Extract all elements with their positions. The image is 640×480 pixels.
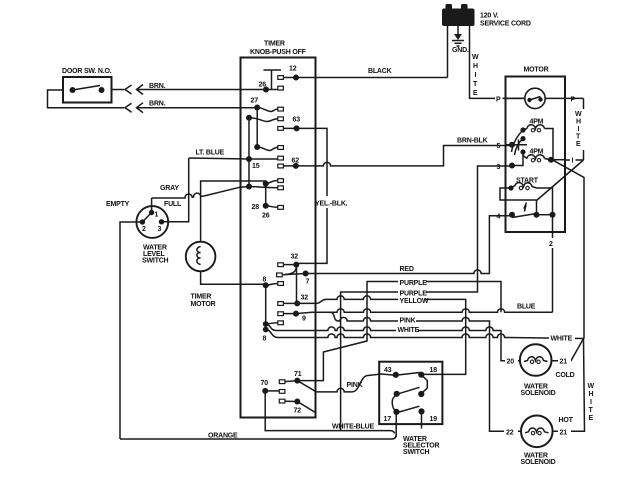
wire 63 to YEL.-BLK. vertical <box>283 128 327 263</box>
svg-text:H: H <box>589 391 594 398</box>
timer box TIMER KNOB-PUSH OFF <box>241 41 316 418</box>
motor main winding 4PM lower <box>523 149 551 162</box>
selector contact 17 dot <box>384 409 400 423</box>
wire terminal 5 stub <box>506 144 513 146</box>
timer arc terminal7-to-32bus <box>285 266 296 275</box>
selector blade 43-18 <box>396 373 420 376</box>
timer terminal 70 <box>279 390 285 394</box>
timer terminal (row 109) <box>278 107 284 111</box>
timer motor circle <box>186 242 216 308</box>
timer wire 70 to terminal <box>265 390 279 392</box>
timer terminal (row 180.5) <box>278 179 284 183</box>
svg-text:BLUE: BLUE <box>517 304 536 311</box>
wire door switch left loop down <box>48 90 125 108</box>
svg-text:I: I <box>475 72 477 79</box>
wire white diagonal to start switch <box>537 160 584 201</box>
timer bus C3 <box>265 184 267 206</box>
svg-text:RED: RED <box>400 266 414 273</box>
svg-text:17: 17 <box>384 416 392 423</box>
wire ORANGE <box>120 433 396 440</box>
svg-text:BRN-BLK: BRN-BLK <box>457 138 488 145</box>
timer blade row147 <box>257 147 278 151</box>
wire 3 to lower winding <box>512 152 523 166</box>
door switch DOOR SW. N.O. <box>62 68 112 103</box>
svg-text:2: 2 <box>142 226 146 233</box>
timer bus C1 <box>248 118 250 187</box>
hot solenoid left lead 22 <box>504 426 518 437</box>
svg-text:PINK: PINK <box>400 318 416 325</box>
wire WHITE-BLUE: timer 70 to selector 17 <box>265 391 394 434</box>
water level switch pin 3 dot <box>158 219 165 233</box>
svg-text:63: 63 <box>293 117 301 124</box>
wire PURPLE lower: white-blue riser to motor 3 <box>341 166 512 431</box>
timer terminal 8b <box>278 321 284 325</box>
motor terminal 3 dot <box>497 163 516 172</box>
wire terminal 4 stub <box>506 215 513 217</box>
selector middle-right dot <box>418 391 424 397</box>
timer contact 32b dot <box>294 295 308 307</box>
svg-text:15: 15 <box>252 163 260 170</box>
timer blade row180 <box>266 181 278 184</box>
svg-text:WHITE-BLUE: WHITE-BLUE <box>332 424 374 431</box>
wire P left inside box <box>506 97 525 99</box>
door switch contact dot left <box>70 87 76 93</box>
wire YELLOW: timer 32b to selector 18 <box>297 296 466 375</box>
door switch blade <box>73 86 101 91</box>
wire start switch to junction <box>537 214 553 216</box>
timer contact 9 dot <box>293 311 306 323</box>
svg-text:72: 72 <box>294 408 302 415</box>
timer bus C2 (27 down) <box>256 108 258 148</box>
timer contact 28 dot <box>252 203 270 220</box>
timer contact 70 dot <box>261 380 269 394</box>
svg-text:26: 26 <box>259 82 267 89</box>
timer terminal (row 118.7) <box>278 117 284 121</box>
svg-text:3: 3 <box>158 226 162 233</box>
motor box MOTOR <box>506 67 566 233</box>
svg-text:LT. BLUE: LT. BLUE <box>196 150 225 157</box>
svg-text:MOTOR: MOTOR <box>524 67 549 74</box>
timer contact 32b terminal <box>278 302 284 306</box>
svg-text:HOT: HOT <box>559 417 574 424</box>
hot solenoid right lead 21 HOT <box>558 417 574 437</box>
svg-text:22: 22 <box>506 430 514 437</box>
selector 17 riser below box <box>395 413 397 437</box>
selector link middle-left to 17 <box>392 396 397 413</box>
cold solenoid left lead 20 <box>501 356 520 366</box>
selector blade 17 <box>397 406 420 412</box>
timer contact 26 wire to terminal <box>266 89 278 91</box>
selector contact 43 dot <box>384 367 399 378</box>
svg-text:43: 43 <box>384 367 392 374</box>
svg-text:COLD: COLD <box>556 372 575 379</box>
svg-text:W: W <box>472 54 479 61</box>
timer blade 8b <box>266 323 278 324</box>
label P right <box>570 95 577 104</box>
timer contact 7 dot <box>303 271 310 286</box>
svg-text:H: H <box>576 119 581 126</box>
motor centrifugal actuator bar <box>512 140 527 151</box>
wire timer motor bottom lead to timer 8 <box>201 271 266 284</box>
svg-text:BRN.: BRN. <box>149 101 166 108</box>
svg-text:SWITCH: SWITCH <box>142 258 169 265</box>
svg-text:28: 28 <box>252 204 260 211</box>
start winding left stub rect <box>500 188 511 200</box>
svg-text:3: 3 <box>497 164 501 171</box>
timer node 8 dots <box>263 321 269 342</box>
motor terminal 4 dot <box>497 212 516 221</box>
wire WHITE: timer 8 to cold solenoid 20 <box>266 324 520 361</box>
timer blade row 187.7 <box>249 187 278 188</box>
selector 19 stub to box bottom <box>421 412 423 429</box>
svg-text:SOLENOID: SOLENOID <box>521 459 556 466</box>
timer blade 32b <box>283 302 297 304</box>
timer contact 72 dot <box>294 399 302 415</box>
wire BRN. bottom to timer 27 <box>137 107 258 109</box>
svg-text:MOTOR: MOTOR <box>191 301 216 308</box>
svg-text:12: 12 <box>289 66 297 73</box>
wire timer motor top lead to timer row 183.6 <box>201 181 266 242</box>
timer blade 8a <box>266 284 278 286</box>
wire EMPTY lead: pin2 left and down (to ORANGE) <box>120 222 142 439</box>
cold water solenoid circle <box>520 344 556 397</box>
wire motor 2 down <box>548 215 557 313</box>
wire BLACK timer 12 to plug <box>283 68 447 78</box>
svg-text:W: W <box>588 383 595 390</box>
wire start winding right lead <box>537 188 553 215</box>
motor main winding 4PM upper <box>523 119 545 132</box>
water level switch pin 1 dot <box>149 210 159 219</box>
timer contact 32a dot <box>291 254 300 268</box>
wire PINK: timer 9 to hot solenoid 22 <box>330 312 521 431</box>
svg-text:32: 32 <box>301 295 309 302</box>
wire door switch right to chevron (BRN) <box>112 89 125 91</box>
svg-text:EMPTY: EMPTY <box>106 201 130 208</box>
svg-text:I: I <box>578 126 580 133</box>
motor centrifugal switch dots <box>520 127 525 132</box>
selector contact 18 dot <box>418 367 437 378</box>
start switch dots <box>534 212 540 218</box>
svg-text:P: P <box>571 97 576 104</box>
wire FULL lead: pin3 right, riser up to LT. BLUE <box>162 158 189 222</box>
svg-text:19: 19 <box>430 416 438 423</box>
svg-text:8: 8 <box>263 336 267 343</box>
timer terminal 72 <box>279 399 285 403</box>
svg-text:YEL.-BLK.: YEL.-BLK. <box>315 201 348 208</box>
svg-text:GRAY: GRAY <box>160 185 179 192</box>
svg-text:PURPLE: PURPLE <box>400 280 428 287</box>
svg-text:20: 20 <box>507 359 515 366</box>
selector blade 18 down <box>421 375 427 394</box>
svg-text:18: 18 <box>430 367 438 374</box>
svg-text:P: P <box>496 97 501 104</box>
timer 8 bus vertical <box>265 285 267 329</box>
hot water solenoid circle <box>521 416 556 467</box>
timer blade 71 to terminal <box>285 381 297 382</box>
selector middle-left dot <box>394 391 400 397</box>
svg-text:71: 71 <box>294 371 302 378</box>
service cord plug 120 V. <box>442 4 531 28</box>
wire PURPLE upper: timer 71 riser to BLUE corner <box>297 278 501 381</box>
timer contact 8 dot <box>263 277 269 289</box>
wire plug right lead WHITE to motor P <box>470 26 526 98</box>
wire upper winding right lead <box>545 129 554 160</box>
cold solenoid right lead 21 <box>552 339 584 380</box>
wire white right vertical to hot 21 <box>553 339 595 432</box>
timer contact 15 dot <box>246 156 260 170</box>
wire plug left lead (BLACK riser) <box>447 26 449 78</box>
timer contact 26 dot <box>259 82 270 93</box>
svg-text:E: E <box>473 90 478 97</box>
timer node C1 top dot <box>246 115 252 121</box>
water selector switch box <box>379 362 442 456</box>
motor protector circle P <box>525 88 545 108</box>
svg-text:WHITE: WHITE <box>398 327 420 334</box>
svg-text:YELLOW: YELLOW <box>400 298 429 305</box>
timer contact 32a terminal <box>278 263 284 267</box>
svg-text:SWITCH: SWITCH <box>403 449 430 456</box>
svg-text:I: I <box>590 399 592 406</box>
wire motor P-I bracket WHITE (right side) <box>583 98 585 160</box>
svg-text:62: 62 <box>292 158 300 165</box>
svg-text:8: 8 <box>263 277 267 284</box>
start switch blade <box>512 214 537 218</box>
wire PINK: timer 71 blade to selector 43 <box>297 374 395 392</box>
timer blade 72 to terminal <box>285 400 297 402</box>
svg-text:FULL: FULL <box>164 201 182 208</box>
timer blade 7 <box>282 274 305 275</box>
timer contact 12 dot <box>289 66 299 81</box>
svg-text:DOOR SW. N.O.: DOOR SW. N.O. <box>62 68 112 75</box>
timer contact 71 dot <box>294 371 302 384</box>
ground symbol GND. <box>452 26 469 54</box>
chevron connector BRN bottom <box>125 103 143 113</box>
svg-text:120 V.: 120 V. <box>480 13 499 20</box>
timer contact 12 terminal <box>278 76 284 80</box>
timer 32 bus vertical <box>296 265 298 304</box>
wire white second: timer 8 to solenoid neutral (right) <box>266 330 584 343</box>
timer contact 63 terminal <box>278 127 284 131</box>
chevron connector BRN top <box>125 85 143 95</box>
timer contact 27 dot <box>251 98 261 111</box>
svg-text:27: 27 <box>251 98 259 105</box>
svg-text:TIMER: TIMER <box>264 41 285 48</box>
timer 72 blade to box edge <box>297 402 316 414</box>
svg-text:PINK: PINK <box>347 382 363 389</box>
svg-text:9: 9 <box>302 316 306 323</box>
wire I to bracket <box>565 156 584 165</box>
svg-text:BLACK: BLACK <box>368 68 392 75</box>
timer contact 63 dot <box>293 117 301 132</box>
timer contact 9 terminal <box>278 312 284 316</box>
svg-text:SOLENOID: SOLENOID <box>521 390 556 397</box>
svg-text:1: 1 <box>155 212 159 219</box>
wire LT. BLUE to timer 15 <box>189 150 249 160</box>
motor centrifugal switch blades <box>512 130 524 155</box>
timer blade 28 <box>266 206 278 208</box>
wire pin1 lead up to GRAY <box>151 198 153 213</box>
timer terminal (row 147.4) <box>278 146 284 150</box>
svg-text:WHITE: WHITE <box>551 336 573 343</box>
water level switch pin 2 dot <box>140 219 146 233</box>
label WHITE vertical (motor bracket) <box>575 111 582 148</box>
wire GRAY to timer <box>152 185 249 198</box>
timer terminal 26 <box>278 86 284 90</box>
wire 62 BRN-BLK to motor 5 <box>283 138 512 166</box>
svg-text:21: 21 <box>560 430 568 437</box>
svg-text:I: I <box>572 158 574 165</box>
start switch actuator <box>524 203 527 212</box>
timer contact 62 terminal <box>278 164 284 168</box>
label P left <box>495 95 503 104</box>
wire RED timer 7 to motor 4 <box>306 216 512 274</box>
timer knob push-off T symbol <box>264 70 282 90</box>
water level switch blade 2-1 <box>142 213 151 223</box>
motor terminal 5 dot <box>497 142 516 150</box>
door switch contact dot right <box>99 87 105 93</box>
selector contact 19 dot <box>418 408 437 423</box>
timer contact 7 terminal <box>277 273 283 277</box>
motor start winding START <box>508 178 538 191</box>
svg-text:4: 4 <box>497 214 501 221</box>
timer blade 15 to terminal <box>249 158 278 160</box>
svg-text:KNOB-PUSH OFF: KNOB-PUSH OFF <box>250 49 307 56</box>
timer blade 9 <box>283 313 296 315</box>
svg-text:32: 32 <box>291 254 299 261</box>
timer terminal 71 <box>279 380 285 384</box>
wire motor neutral diagonal from junction to right vertical <box>552 160 584 339</box>
svg-text:7: 7 <box>306 279 310 286</box>
timer node dot row 183.6 <box>263 181 269 187</box>
timer node dot C2 bottom (row 147) <box>254 144 260 150</box>
svg-text:5: 5 <box>497 143 501 150</box>
svg-text:26: 26 <box>262 213 270 220</box>
svg-text:W: W <box>575 111 582 118</box>
selector blade middle <box>397 387 420 394</box>
svg-text:BRN.: BRN. <box>149 83 166 90</box>
svg-text:H: H <box>473 63 478 70</box>
svg-text:21: 21 <box>560 359 568 366</box>
water level switch circle <box>136 206 168 264</box>
svg-text:E: E <box>589 415 594 422</box>
start switch enclosure <box>506 200 537 215</box>
timer terminal (row 207.3) <box>278 206 284 210</box>
wire junction to I <box>551 159 565 161</box>
timer terminal (row 187.7) <box>278 186 284 190</box>
timer terminal (row 157.8) <box>278 156 284 160</box>
timer 27 blade to terminal 1 <box>257 108 278 112</box>
svg-text:GND.: GND. <box>452 47 469 54</box>
svg-text:SERVICE CORD: SERVICE CORD <box>480 21 531 28</box>
timer contact 62 dot <box>292 158 300 169</box>
svg-text:2: 2 <box>549 241 553 248</box>
svg-text:70: 70 <box>261 380 269 387</box>
svg-text:TIMER: TIMER <box>191 294 212 301</box>
wire BLUE: timer 32 bus to motor 2 <box>296 304 553 314</box>
wire BRN. top to timer 26 <box>137 89 267 91</box>
timer blade C1-top to terminal <box>249 118 278 122</box>
timer node dot C1 bottom (GRAY) <box>246 184 252 190</box>
wire P right to white bracket <box>545 97 583 99</box>
svg-text:E: E <box>576 141 581 148</box>
svg-text:ORANGE: ORANGE <box>208 433 238 440</box>
motor junction dot (to I) <box>548 157 554 163</box>
timer terminal 8a <box>278 282 284 286</box>
timer blade 32a <box>283 264 296 266</box>
